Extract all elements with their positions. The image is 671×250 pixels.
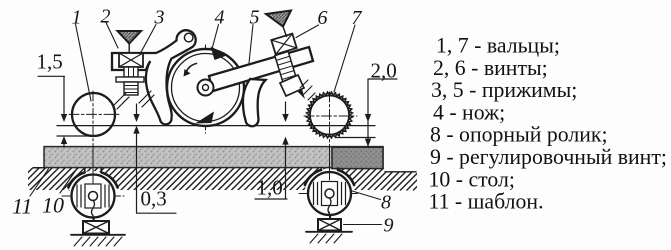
svg-text:1,0: 1,0: [257, 176, 283, 200]
callout texts: [12, 6, 397, 237]
base hatching: [4, 168, 436, 190]
legend: [429, 34, 667, 214]
svg-text:4 - нож;: 4 - нож;: [433, 100, 505, 124]
table bottom edge extension left: [33, 167, 44, 169]
disc knife 4 center lines: [205, 45, 207, 133]
leader line to screw 2: [106, 23, 118, 49]
recess arc left roller: [68, 173, 84, 188]
dimension 2,0: [368, 79, 397, 147]
screw 2 knob: [118, 31, 142, 44]
svg-text:2, 6 - винты;: 2, 6 - винты;: [433, 56, 548, 80]
left support roller: [62, 195, 124, 197]
screw 2 stack: [119, 53, 143, 67]
dimension 1,0: [255, 102, 287, 199]
svg-text:11 - шаблон.: 11 - шаблон.: [429, 190, 544, 214]
svg-text:7: 7: [352, 7, 363, 29]
table 10 (speckled band): [44, 147, 383, 168]
svg-text:1, 7 - вальцы;: 1, 7 - вальцы;: [436, 34, 560, 58]
svg-text:2: 2: [101, 6, 111, 28]
workpiece sheet line: [57, 125, 375, 127]
recess arc right roller: [305, 170, 321, 185]
svg-text:11: 11: [12, 194, 32, 219]
svg-text:10: 10: [42, 193, 64, 218]
clamp 3 eye hole: [184, 33, 193, 42]
svg-text:1,5: 1,5: [37, 50, 63, 74]
template block (dark right part of band): [332, 147, 383, 168]
disc hub: [198, 80, 214, 96]
svg-text:2,0: 2,0: [371, 59, 397, 83]
clamp 3: [112, 30, 196, 124]
leader line to template 11: [30, 169, 49, 196]
rim wedge bottom: [195, 112, 214, 124]
screw 6 foot: [280, 75, 304, 96]
knife disc 4: [167, 49, 244, 126]
roller 1: [72, 93, 115, 136]
clamp 5 boot foot: [243, 79, 266, 126]
svg-text:8 - опорный ролик;: 8 - опорный ролик;: [430, 123, 608, 147]
leader line to support roller 8: [351, 191, 381, 200]
screw 9 left twin: [83, 221, 109, 234]
roller 1 center lines: [69, 113, 119, 115]
leader line to table 10: [60, 169, 77, 194]
svg-text:4: 4: [215, 7, 225, 29]
right support roller 8: [299, 193, 360, 195]
svg-text:9 - регулировочный винт;: 9 - регулировочный винт;: [430, 145, 667, 169]
base top edge right of table: [385, 171, 416, 173]
svg-text:6: 6: [318, 7, 328, 29]
leader line to clamp 5: [249, 25, 253, 64]
screw 6 knob (triangle): [266, 11, 291, 27]
screw 6 shank: [275, 51, 297, 83]
recess gap stubs: [85, 168, 338, 173]
svg-text:8: 8: [381, 192, 391, 214]
leader line to clamp 3: [140, 25, 156, 55]
svg-text:5: 5: [250, 7, 260, 29]
svg-text:3: 3: [154, 7, 165, 29]
roller 7 (serrated): [307, 92, 353, 138]
svg-text:10 - стол;: 10 - стол;: [429, 167, 515, 191]
screw 2 hatch flags: [114, 91, 154, 109]
svg-text:1: 1: [72, 7, 82, 29]
screw 9: [318, 219, 341, 231]
clamp 5 bar: [209, 47, 313, 91]
leader line to roller 1: [76, 24, 92, 101]
roller 7 center lines: [304, 115, 357, 117]
svg-text:3, 5 - прижимы;: 3, 5 - прижимы;: [431, 78, 577, 102]
dimension 1,5: [38, 76, 65, 114]
svg-text:9: 9: [384, 215, 394, 237]
leader line to knife 4: [212, 25, 219, 50]
rim wedge top: [211, 47, 229, 61]
svg-text:0,3: 0,3: [141, 187, 167, 211]
dimension 0,3: [137, 104, 177, 213]
vertical center line through left column lower: [92, 168, 94, 221]
leader line to adjusting screw 9: [344, 224, 382, 226]
rotation arrow: [186, 64, 197, 73]
leader line to roller 7: [334, 25, 355, 92]
screw 6 nut (crossed box): [271, 34, 296, 55]
leader line to screw 6: [296, 25, 319, 38]
